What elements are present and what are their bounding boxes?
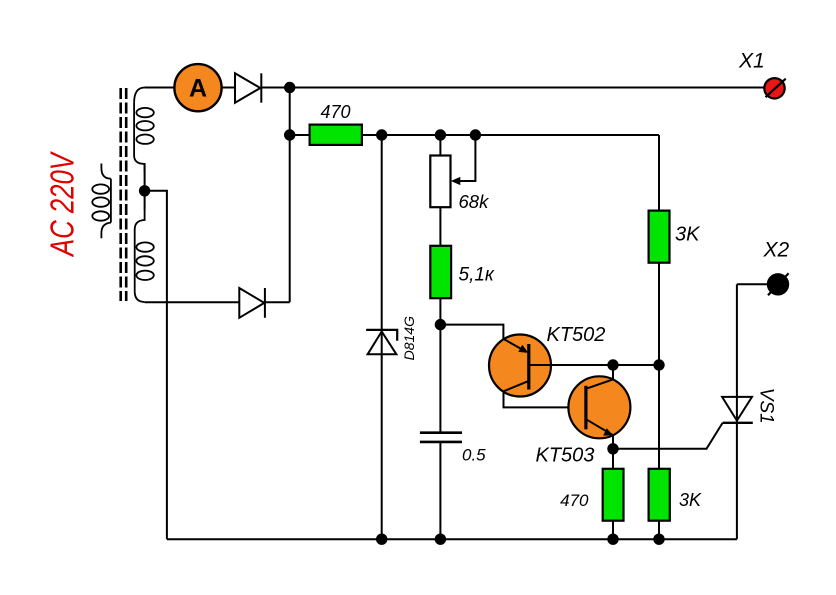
svg-text:X2: X2 [763,239,790,262]
capacitor C1 0.5 [420,433,462,442]
node junction rail 3K [653,534,664,545]
node junction base divider [435,319,446,330]
node junction KT503 collector [607,359,618,370]
resistor R2 5,1k [430,246,495,298]
wire 5,1k to cap node [439,298,441,433]
transistor KT502 [489,324,605,407]
wire top rail to X1 [261,87,764,89]
terminal X1 [738,50,786,99]
transistor KT503 [536,376,631,466]
wire pot branch top [439,135,441,156]
transformer T1 secondary winding top [134,88,154,173]
node junction zener top [376,129,387,140]
svg-text:AC 220V: AC 220V [45,150,82,258]
svg-text:A: A [189,75,207,103]
transformer T1 primary winding [92,164,111,239]
node junction wiper top [470,129,481,140]
resistor R3 3K [649,211,702,263]
zener diode D814G [366,330,397,354]
wire 3K bottom to rail [658,521,660,540]
wire gate of thyristor [613,423,723,449]
resistor R5 3K bottom [649,469,702,521]
svg-text:VS1: VS1 [756,388,777,424]
transformer T1 secondary winding bottom [135,210,154,302]
svg-text:3K: 3K [675,224,701,246]
ammeter PA1 [174,64,221,111]
wire diode VD2 to rectifier node [265,301,290,303]
svg-text:0.5: 0.5 [462,446,486,465]
resistor R1 470 [310,102,362,145]
wire secondary top to ammeter [145,87,175,89]
wire bottom rail [167,538,737,540]
wire thyristor anode vertical [736,284,738,423]
svg-text:D814G: D814G [401,316,417,360]
thyristor VS1 [722,397,753,423]
node junction KT503 emitter [607,443,618,454]
svg-text:X1: X1 [738,50,765,73]
wire center tap vertical [145,164,167,539]
svg-text:KT502: KT502 [547,324,606,346]
wire X2 horizontal [737,283,768,285]
node junction top rail [284,82,295,93]
wire potentiometer wiper [458,135,475,181]
node junction rail 470 [607,534,618,545]
svg-text:470: 470 [320,102,350,122]
wire KT503 collector vertical [612,365,614,379]
node junction 3K top branch [653,359,664,370]
wire ammeter to diode VD1 [221,87,235,89]
wire 3K to junction [658,263,660,469]
wire 3K branch vertical [658,135,660,211]
wire zener branch vertical [381,135,383,539]
wire resistor 470 to pot row [362,134,659,136]
node junction rail zener [376,534,387,545]
svg-text:5,1к: 5,1к [459,265,495,286]
node junction pot top [435,129,446,140]
wire bottom winding to diode VD2 [145,301,240,303]
wire thyristor cathode to rail [736,423,738,539]
transformer T1 core [121,88,127,301]
wire divider node to KT502 emitter [440,325,503,339]
svg-text:470: 470 [560,491,589,510]
diode VD1 [235,73,261,102]
wire rectifier output vertical [289,88,291,303]
diode VD2 [239,288,265,318]
wire 470 bottom to rail [612,521,614,540]
svg-text:3K: 3K [679,490,702,510]
potentiometer 68k [430,156,490,213]
wire cap to bottom rail [439,442,441,539]
node center tap junction [139,185,150,196]
node junction rail cap [435,534,446,545]
wire KT502 base lead [529,364,659,366]
svg-text:68k: 68k [459,191,491,212]
wire KT503 emitter vertical [612,435,614,469]
wire pot to resistor 5,1k [439,207,441,246]
wire node to resistor 470 [290,134,310,136]
resistor R4 470 bottom [560,469,623,521]
node junction at resistor row [284,129,295,140]
svg-text:KT503: KT503 [536,445,595,467]
terminal X2 [763,239,790,296]
